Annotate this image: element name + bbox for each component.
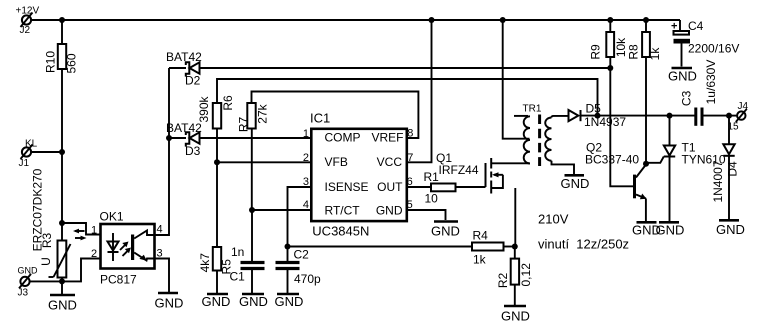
svg-text:D4: D4 xyxy=(726,161,740,177)
svg-text:RT/CT: RT/CT xyxy=(325,204,361,218)
wire RT/CT to IC pin4 xyxy=(252,209,310,211)
svg-text:GND: GND xyxy=(501,309,530,322)
op-amp IC1 UC3845N xyxy=(303,111,413,239)
varistor R3 ERZC07DK270 xyxy=(30,168,70,277)
ground T1 xyxy=(656,222,685,237)
transistor Q1 IRFZ44 xyxy=(436,151,530,194)
wire OK1 pin4 up xyxy=(155,138,170,235)
node rail-VCC xyxy=(429,17,435,23)
wire D5 output line xyxy=(581,115,696,117)
wire +12V top rail xyxy=(31,19,680,21)
svg-text:IRFZ44: IRFZ44 xyxy=(439,163,479,177)
light arrows xyxy=(120,244,127,251)
ground R5 xyxy=(202,294,231,309)
svg-text:J1: J1 xyxy=(19,158,30,169)
ground C2 xyxy=(275,294,304,309)
svg-text:R6: R6 xyxy=(221,95,235,111)
capacitor C2 470p xyxy=(276,247,322,294)
svg-text:BAT42: BAT42 xyxy=(166,50,202,64)
svg-text:vinutí 12z/250z: vinutí 12z/250z xyxy=(538,237,629,252)
svg-text:210V: 210V xyxy=(538,212,569,227)
svg-text:R10: R10 xyxy=(44,51,58,73)
svg-text:VCC: VCC xyxy=(377,155,403,169)
svg-text:D3: D3 xyxy=(185,144,201,158)
wire node to R4 xyxy=(288,246,473,248)
resistor R2 0,12 xyxy=(496,247,533,306)
svg-text:OK1: OK1 xyxy=(100,210,124,224)
svg-text:8: 8 xyxy=(407,128,413,140)
wire R3 bottom xyxy=(61,278,63,295)
node VFB xyxy=(214,159,220,165)
svg-text:IC1: IC1 xyxy=(310,111,330,126)
svg-text:4: 4 xyxy=(157,224,163,236)
wire R7 bottom to RT/CT xyxy=(251,129,253,211)
wire D2 to R9 bottom xyxy=(200,67,611,69)
resistor R7 27k xyxy=(237,92,419,139)
wire OK1 pin2 return xyxy=(62,259,101,282)
svg-text:1: 1 xyxy=(91,225,97,237)
svg-text:R5: R5 xyxy=(220,259,234,275)
svg-text:1N4007: 1N4007 xyxy=(711,160,725,202)
node rail-R8 xyxy=(643,17,649,23)
svg-text:UC3845N: UC3845N xyxy=(312,224,369,239)
thyristor T1 TYN610 xyxy=(646,116,726,221)
diode D5 1N4937 xyxy=(569,102,627,130)
svg-text:R9: R9 xyxy=(588,44,602,60)
optocoupler OK1 PC817 xyxy=(91,210,163,287)
svg-text:GND: GND xyxy=(155,296,184,311)
ground Q2 emitter xyxy=(632,222,661,237)
svg-text:TR1: TR1 xyxy=(523,104,542,115)
svg-text:VREF: VREF xyxy=(371,131,403,145)
connector J1 KL xyxy=(19,139,38,170)
wire VFB down to R5 xyxy=(216,162,218,247)
LED arrows at OK1 input xyxy=(73,229,87,241)
wire Q1 source down xyxy=(514,188,516,247)
ground TR1 secondary xyxy=(561,175,590,191)
resistor R1 10 xyxy=(406,170,456,206)
svg-text:R1: R1 xyxy=(424,170,440,184)
svg-text:390k: 390k xyxy=(197,95,211,122)
diode D3 BAT42 xyxy=(166,121,202,158)
svg-text:C3: C3 xyxy=(680,90,694,106)
svg-text:D2: D2 xyxy=(185,74,201,88)
wire branch to OK1 pin1 xyxy=(62,223,100,235)
svg-text:OUT: OUT xyxy=(377,180,403,194)
wire R6 bottom to VFB xyxy=(216,129,218,163)
svg-text:1N4937: 1N4937 xyxy=(584,115,626,129)
ground D4 xyxy=(716,220,745,237)
svg-text:C4: C4 xyxy=(688,19,704,33)
resistor R5 4k7 xyxy=(198,247,234,293)
svg-text:GND: GND xyxy=(275,294,304,309)
svg-text:1n: 1n xyxy=(231,245,244,259)
ground C4 xyxy=(668,68,697,84)
svg-text:GND: GND xyxy=(18,266,39,276)
resistor R4 1k xyxy=(472,229,515,267)
svg-text:GND: GND xyxy=(656,223,685,238)
node ISENSE xyxy=(285,244,291,250)
svg-text:BC337-40: BC337-40 xyxy=(585,153,639,167)
wire VCC pin7 xyxy=(406,20,432,162)
svg-text:GND: GND xyxy=(48,298,77,313)
connector J4 xyxy=(728,101,749,133)
wire D3 to IC pin1 xyxy=(200,137,311,139)
capacitor C1 1n xyxy=(230,210,265,293)
svg-text:1k: 1k xyxy=(473,253,487,267)
svg-text:R2: R2 xyxy=(496,273,510,289)
svg-text:+: + xyxy=(671,21,677,33)
svg-text:J3: J3 xyxy=(18,288,29,299)
svg-text:U: U xyxy=(39,257,53,266)
wire R10 to R3 xyxy=(61,69,63,241)
resistor R10 560 xyxy=(44,20,79,74)
node R8 T1 gate Q2 collector xyxy=(643,161,649,167)
resistor R6 390k xyxy=(197,79,598,129)
node rail-R9 xyxy=(607,17,613,23)
svg-text:R4: R4 xyxy=(473,229,489,243)
ground C1 xyxy=(239,294,268,309)
svg-text:J4: J4 xyxy=(738,101,749,112)
wire R1 to gate xyxy=(456,186,486,188)
node RT/CT xyxy=(249,207,255,213)
node J4 D4 xyxy=(726,113,732,119)
svg-text:R8: R8 xyxy=(626,44,640,60)
svg-text:GND: GND xyxy=(716,222,745,237)
node rail-R10 xyxy=(59,17,65,23)
node R3 top branch xyxy=(59,220,65,226)
wire D2 left vertical xyxy=(168,68,170,138)
ground IC pin5 xyxy=(431,222,460,239)
connector J2 +12V xyxy=(16,6,40,37)
svg-text:J2: J2 xyxy=(20,25,31,36)
capacitor C3 1u/630V xyxy=(680,60,729,126)
node J3 junction xyxy=(59,278,65,284)
svg-text:1k: 1k xyxy=(648,47,662,61)
node feedback tap xyxy=(595,113,601,119)
node source R4 R2 xyxy=(512,244,518,250)
svg-text:GND: GND xyxy=(431,224,460,239)
svg-text:GND: GND xyxy=(376,204,403,218)
svg-text:+12V: +12V xyxy=(16,6,40,17)
svg-text:GND: GND xyxy=(668,69,697,84)
wire +12V to TR1 primary tap xyxy=(503,20,530,139)
svg-text:VFB: VFB xyxy=(325,155,348,169)
connector J3 GND xyxy=(18,266,39,299)
svg-text:R7: R7 xyxy=(237,117,251,133)
resistor R8 1k xyxy=(626,20,662,164)
transistor Q2 BC337-40 xyxy=(585,141,647,222)
LED inside xyxy=(112,233,114,261)
ground OK1 pin3 xyxy=(155,293,184,311)
svg-text:C2: C2 xyxy=(294,248,310,262)
resistor R9 10k xyxy=(588,20,627,60)
svg-text:PC817: PC817 xyxy=(100,273,137,287)
ground below R3 xyxy=(48,295,77,313)
diode D4 1N4007 xyxy=(711,116,740,219)
transformer TR1 xyxy=(514,104,574,175)
svg-text:10: 10 xyxy=(425,192,439,206)
node J1 xyxy=(59,149,65,155)
svg-text:GND: GND xyxy=(202,294,231,309)
wire OK1 pin3 to gnd xyxy=(155,259,170,293)
ground R2 xyxy=(501,306,530,322)
svg-text:27k: 27k xyxy=(256,103,270,123)
wire VFB to IC pin2 xyxy=(217,161,310,163)
wire R9 to Q2 base xyxy=(610,57,633,186)
svg-text:1: 1 xyxy=(303,128,309,140)
svg-text:560: 560 xyxy=(65,53,79,73)
node R9 D2 xyxy=(607,65,613,71)
svg-text:4: 4 xyxy=(303,199,309,211)
node rail-TR1 xyxy=(500,17,506,23)
svg-text:0,12: 0,12 xyxy=(519,263,533,287)
svg-text:COMP: COMP xyxy=(325,131,361,145)
svg-text:1u/630V: 1u/630V xyxy=(704,60,718,105)
wire J1 to R10 line xyxy=(31,151,62,153)
svg-text:GND: GND xyxy=(239,294,268,309)
node D3 junction xyxy=(166,135,172,141)
svg-text:GND: GND xyxy=(561,176,590,191)
svg-text:2: 2 xyxy=(303,152,309,164)
svg-text:470p: 470p xyxy=(294,272,321,286)
svg-text:3: 3 xyxy=(303,176,309,188)
phototransistor xyxy=(131,235,134,261)
wire J3 to node xyxy=(30,280,62,282)
node T1 anode xyxy=(667,113,673,119)
diode D2 BAT42 xyxy=(166,50,202,88)
svg-text:KL: KL xyxy=(25,139,38,150)
wire ISENSE from IC pin3 xyxy=(288,187,311,247)
svg-text:4k7: 4k7 xyxy=(198,253,212,273)
svg-text:R3: R3 xyxy=(40,233,54,249)
capacitor C4 2200/16V xyxy=(671,19,739,67)
svg-text:ISENSE: ISENSE xyxy=(325,180,369,194)
wire GND pin5 xyxy=(406,210,446,220)
svg-text:2200/16V: 2200/16V xyxy=(688,42,739,56)
